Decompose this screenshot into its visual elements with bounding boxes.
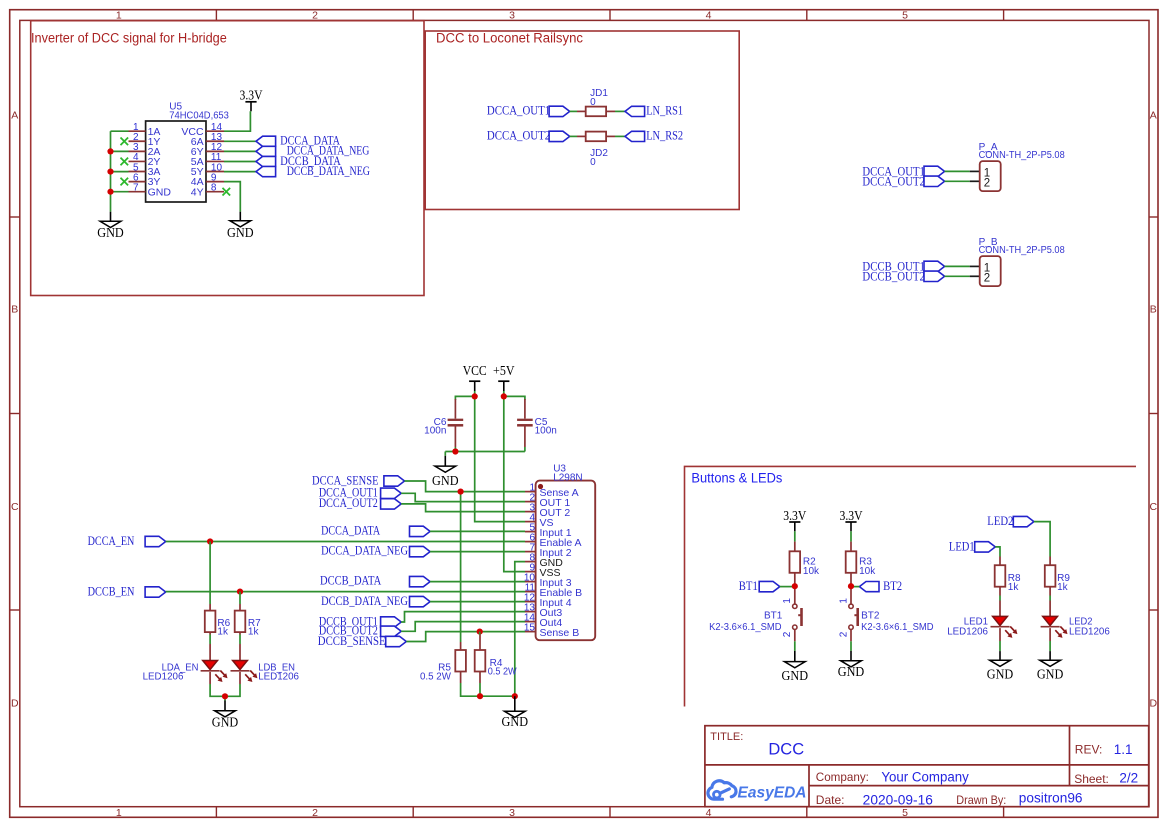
wire DCCA_DATA_NEG to pin7: [430, 551, 525, 553]
no-connect X pin 6: [121, 178, 129, 186]
node DCCA_OUT1: [487, 103, 570, 118]
svg-text:LN_RS1: LN_RS1: [646, 103, 683, 118]
svg-text:3.3V: 3.3V: [240, 88, 263, 103]
svg-text:2/2: 2/2: [1119, 771, 1138, 786]
node BT2: [859, 578, 902, 593]
resistor R9 1k: [1045, 557, 1071, 596]
svg-text:0: 0: [590, 97, 596, 108]
node DCCB_OUT2 (U3): [319, 623, 401, 638]
wire DCCA_DATA to pin5: [430, 530, 525, 532]
svg-text:DCCA_OUT1: DCCA_OUT1: [487, 103, 550, 118]
junction DCCA_EN / R6: [207, 538, 213, 544]
svg-text:K2-3.6×6.1_SMD: K2-3.6×6.1_SMD: [861, 622, 933, 633]
svg-text:EasyEDA: EasyEDA: [738, 785, 807, 802]
svg-text:DCCA_DATA: DCCA_DATA: [321, 523, 380, 538]
wire R6 branch: [209, 542, 211, 605]
svg-text:BT1: BT1: [739, 578, 758, 593]
wire pin9 4A to ground: [224, 182, 240, 212]
svg-text:DCCB_DATA_NEG: DCCB_DATA_NEG: [287, 163, 370, 178]
svg-text:A: A: [11, 110, 18, 122]
svg-text:DCCB_SENSE: DCCB_SENSE: [318, 633, 386, 648]
wire pin8 GND down: [515, 562, 525, 697]
svg-text:LED1206: LED1206: [1069, 627, 1110, 638]
svg-text:VCC: VCC: [463, 363, 487, 378]
svg-text:Buttons & LEDs: Buttons & LEDs: [691, 470, 782, 485]
node DCCB_OUT2: [862, 268, 944, 283]
resistor JD1 0: [577, 88, 615, 116]
junction VCC: [472, 393, 478, 399]
svg-text:8: 8: [211, 182, 217, 193]
svg-text:DCCB_EN: DCCB_EN: [88, 584, 135, 599]
svg-text:1: 1: [782, 598, 793, 604]
svg-text:Inverter of DCC signal for H-b: Inverter of DCC signal for H-bridge: [31, 31, 227, 46]
U3 pin stubs 1-15: [525, 492, 536, 632]
wire R7 to LDB_EN: [239, 635, 241, 645]
wire flag to resistor: [570, 135, 577, 137]
wire DCCB_SENSE to pin15: [406, 632, 525, 642]
junction SenseA / R5: [458, 489, 464, 495]
U5 pin numbers left: [133, 122, 139, 193]
svg-text:DCC: DCC: [768, 740, 804, 758]
wire to connector pin 2: [945, 275, 970, 277]
node DCCA_OUT1: [862, 163, 944, 178]
junction DCCB_EN / R7: [237, 589, 243, 595]
svg-text:C: C: [11, 501, 19, 513]
wire R5/R4 ground rail: [461, 683, 515, 696]
node DCCA_DATA: [256, 133, 340, 148]
ground BT1: [782, 651, 809, 683]
wire pin5 3A: [111, 171, 129, 173]
svg-text:A: A: [1150, 110, 1157, 122]
ground U5 right: [227, 212, 254, 241]
node DCCA_OUT2: [487, 128, 570, 143]
svg-text:DCCA_OUT2: DCCA_OUT2: [862, 173, 925, 188]
svg-text:DCCA_OUT2: DCCA_OUT2: [319, 495, 378, 510]
switch BT1 K2-3.6x6.1_SMD: [709, 598, 801, 638]
svg-text:5: 5: [902, 10, 908, 22]
svg-text:0.5 2W: 0.5 2W: [420, 671, 451, 682]
svg-text:C: C: [1150, 501, 1158, 513]
svg-text:74HC04D,653: 74HC04D,653: [169, 111, 229, 122]
LED LDA_EN LED1206: [143, 644, 228, 684]
junction C6 gnd: [452, 448, 458, 454]
svg-text:2: 2: [838, 631, 849, 637]
junction SenseB / R4: [477, 629, 483, 635]
wire LED2 to ground: [1049, 641, 1051, 651]
svg-text:DCCA_DATA_NEG: DCCA_DATA_NEG: [321, 543, 408, 558]
svg-text:DCC to Loconet Railsync: DCC to Loconet Railsync: [436, 30, 583, 45]
ground LED2: [1037, 651, 1064, 681]
svg-text:B: B: [1150, 304, 1157, 316]
node DCCB_DATA (U3): [320, 573, 430, 588]
wire pin7 GND: [111, 191, 129, 193]
switch bottom stub: [794, 629, 796, 641]
wire DCCB_EN to pin11 Enable B: [166, 591, 525, 593]
junction LED rail gnd: [222, 693, 228, 699]
svg-text:Date:: Date:: [816, 793, 845, 807]
wire pin10 5Y: [224, 171, 256, 173]
svg-text:1k: 1k: [1008, 582, 1020, 593]
U5 pin names: [148, 126, 204, 198]
svg-text:LED1: LED1: [949, 538, 975, 553]
svg-text:DCCA_EN: DCCA_EN: [88, 533, 135, 548]
ground U3 rail: [502, 696, 529, 729]
svg-text:GND: GND: [502, 714, 529, 729]
svg-text:3.3V: 3.3V: [783, 508, 806, 523]
svg-text:DCCA_OUT2: DCCA_OUT2: [487, 128, 550, 143]
svg-text:BT2: BT2: [861, 610, 880, 621]
wire R6 to LDA_EN: [209, 635, 211, 645]
svg-text:BT2: BT2: [883, 578, 902, 593]
svg-text:1k: 1k: [1057, 582, 1069, 593]
wire DCCA_OUT1 to pin2: [401, 493, 525, 501]
U5 left pins 1-7 stubs: [129, 131, 146, 191]
svg-text:7: 7: [133, 182, 139, 193]
node DCCA_DATA (U3): [321, 523, 430, 538]
wire VCC pin14 to 3.3V: [224, 111, 250, 131]
wire R9 to LED2: [1049, 596, 1051, 601]
node DCCA_SENSE: [312, 472, 405, 487]
svg-text:positron96: positron96: [1019, 791, 1083, 806]
U3 pin names: [540, 487, 583, 639]
LED LED1 LED1206: [947, 601, 1017, 642]
junction BT1: [792, 583, 798, 589]
node DCCB_DATA_NEG: [256, 163, 370, 178]
ground BT2: [838, 651, 865, 679]
svg-text:Drawn By:: Drawn By:: [956, 793, 1006, 807]
svg-text:GND: GND: [782, 668, 809, 683]
svg-text:4Y: 4Y: [191, 186, 204, 198]
svg-text:Sheet:: Sheet:: [1074, 772, 1109, 786]
svg-text:LED2: LED2: [987, 513, 1013, 528]
wire DCCB_DATA_NEG to pin12: [430, 601, 525, 603]
resistor R7 1k: [235, 604, 261, 637]
svg-text:GND: GND: [432, 473, 459, 488]
junction pin7: [107, 189, 113, 195]
svg-text:Company:: Company:: [816, 770, 869, 784]
svg-text:2020-09-16: 2020-09-16: [863, 792, 933, 807]
wire +5V vertical to pin9 VSS: [504, 391, 525, 572]
wire DCCB_OUT2 to pin14: [401, 622, 525, 632]
IC U5 74HC04D,653 inverter: [146, 102, 230, 202]
wire +5V to C5: [504, 396, 525, 400]
svg-text:2: 2: [984, 272, 990, 284]
svg-text:100n: 100n: [535, 426, 557, 437]
svg-text:GND: GND: [212, 715, 239, 730]
svg-text:10k: 10k: [859, 566, 876, 577]
no-connect X pin 8: [223, 188, 231, 196]
svg-text:D: D: [11, 698, 19, 710]
wire resistor to LN flag: [615, 110, 625, 112]
wire DCCB_OUT1 to pin13: [401, 612, 525, 622]
wire to connector pin 1: [945, 265, 970, 267]
svg-text:DCCB_DATA_NEG: DCCB_DATA_NEG: [321, 593, 408, 608]
resistor R3 10k: [846, 542, 877, 605]
IC U3 L298N: [536, 463, 596, 640]
power 3.3V U5: [240, 88, 263, 112]
svg-text:3: 3: [509, 807, 515, 819]
node LED2: [987, 513, 1034, 528]
wire pin3 2A: [111, 150, 129, 152]
junction pin5: [107, 169, 113, 175]
wire LED1 flag to R8: [995, 547, 1000, 557]
wire capacitor ground rail: [454, 447, 456, 452]
svg-text:1k: 1k: [248, 626, 260, 637]
wire resistor to LN flag: [615, 135, 625, 137]
svg-text:TITLE:: TITLE:: [710, 731, 743, 743]
wire LED ground rail: [210, 684, 240, 696]
LED LDB_EN LED1206: [231, 644, 300, 684]
power 3.3V BT1: [783, 508, 806, 531]
wire pin13 6A: [224, 140, 256, 142]
wire switch to ground: [794, 641, 796, 651]
svg-text:3.3V: 3.3V: [840, 508, 863, 523]
svg-text:2: 2: [312, 807, 318, 819]
U3 pin numbers: [524, 483, 536, 634]
svg-text:LED1206: LED1206: [947, 627, 988, 638]
svg-text:L298N: L298N: [553, 472, 582, 483]
wire VCC to C6: [455, 396, 474, 400]
svg-text:10k: 10k: [803, 566, 820, 577]
U5 right pins 14-8 stubs: [206, 131, 224, 191]
resistor R8 1k: [995, 557, 1021, 596]
wire junction to flag: [851, 586, 859, 588]
junction rail gnd stem: [512, 693, 518, 699]
wire to connector pin 2: [945, 180, 970, 182]
resistor R2 10k: [790, 542, 821, 605]
svg-text:1: 1: [116, 807, 122, 819]
wire SenseA to R5: [460, 492, 462, 642]
junction pin3: [107, 148, 113, 154]
svg-text:LED1206: LED1206: [258, 672, 299, 683]
node DCCB_OUT1 (U3): [319, 613, 401, 628]
wire DCCA_EN to pin6 Enable A: [166, 541, 525, 543]
svg-text:GND: GND: [148, 186, 172, 198]
node DCCA_OUT1 (U3): [319, 485, 401, 500]
node DCCA_DATA_NEG: [256, 143, 369, 158]
connector P_B CONN-TH_2P-P5.08: [970, 237, 1065, 286]
svg-text:LED1206: LED1206: [143, 672, 184, 683]
node DCCB_DATA: [256, 153, 341, 168]
connector P_A CONN-TH_2P-P5.08: [970, 142, 1065, 191]
capacitor C5 100n: [517, 399, 557, 447]
svg-text:BT1: BT1: [764, 610, 783, 621]
svg-text:15: 15: [524, 623, 536, 634]
svg-text:REV:: REV:: [1075, 743, 1103, 757]
wire LED1 to ground: [999, 641, 1001, 651]
svg-text:D: D: [1150, 698, 1158, 710]
wire flag to resistor: [570, 110, 577, 112]
node LED1: [949, 538, 995, 553]
no-connect X pin 2: [121, 137, 129, 145]
svg-text:Sense B: Sense B: [540, 627, 580, 639]
node DCCA_DATA_NEG (U3): [321, 543, 430, 558]
no-connect X pin 4: [121, 158, 129, 166]
svg-text:DCCB_DATA: DCCB_DATA: [320, 573, 382, 588]
svg-text:2: 2: [984, 177, 990, 189]
wire DCCA_OUT2 to pin3: [401, 504, 525, 512]
svg-text:Your Company: Your Company: [881, 769, 969, 784]
LED LED2 LED1206: [1041, 601, 1111, 642]
U5 pin numbers right: [211, 122, 223, 193]
resistor R4 0.5 2W: [475, 635, 518, 684]
resistor R5 0.5 2W: [420, 642, 466, 683]
node DCCA_OUT2 (U3): [319, 495, 401, 510]
power +5V: [493, 363, 515, 391]
svg-text:5: 5: [902, 807, 908, 819]
wire DCCA_SENSE to pin1: [405, 481, 526, 492]
resistor R6 1k: [205, 604, 231, 637]
ground LED1: [987, 651, 1014, 681]
capacitor C6 100n: [424, 399, 463, 447]
svg-text:GND: GND: [97, 225, 124, 240]
junction BT2: [848, 583, 854, 589]
svg-text:GND: GND: [1037, 666, 1064, 681]
svg-text:1.1: 1.1: [1114, 742, 1133, 757]
svg-text:0.5 2W: 0.5 2W: [488, 667, 518, 678]
svg-text:1: 1: [116, 10, 122, 22]
wire DCCB_DATA to pin10: [430, 581, 525, 583]
svg-text:3: 3: [509, 10, 515, 22]
junction R4 gnd: [477, 693, 483, 699]
svg-text:0: 0: [590, 157, 596, 168]
svg-text:LN_RS2: LN_RS2: [646, 128, 683, 143]
svg-text:GND: GND: [987, 666, 1014, 681]
node DCCA_OUT2: [862, 173, 944, 188]
svg-text:+5V: +5V: [493, 363, 515, 378]
node DCCA_EN: [88, 533, 166, 548]
ground LEDs: [212, 701, 239, 730]
switch bottom stub: [850, 629, 852, 641]
svg-text:CONN-TH_2P-P5.08: CONN-TH_2P-P5.08: [979, 245, 1066, 256]
wire flag to junction: [780, 586, 795, 588]
switch BT2 K2-3.6x6.1_SMD: [838, 598, 933, 638]
wire pin1 1A: [111, 130, 129, 132]
wire R8 to LED1: [999, 596, 1001, 601]
power VCC: [463, 363, 487, 391]
svg-text:GND: GND: [227, 225, 254, 240]
node DCCB_OUT1: [862, 258, 944, 273]
svg-text:100n: 100n: [424, 426, 446, 437]
svg-text:GND: GND: [838, 664, 865, 679]
wire R7 branch: [239, 592, 241, 604]
node BT1: [739, 578, 780, 593]
ground U5 left: [97, 212, 124, 241]
U3 pin1 marker dot: [538, 484, 543, 489]
node LN_RS1: [625, 103, 683, 118]
svg-text:4: 4: [706, 807, 712, 819]
svg-text:K2-3.6×6.1_SMD: K2-3.6×6.1_SMD: [709, 622, 781, 633]
wire 3.3V to resistor: [850, 531, 852, 541]
node LN_RS2: [625, 128, 683, 143]
wire pin11 5A: [224, 161, 256, 163]
svg-text:1: 1: [838, 598, 849, 604]
wire SenseB dot to R4: [479, 632, 481, 635]
wire switch to ground: [850, 641, 852, 651]
svg-text:1k: 1k: [217, 626, 229, 637]
power 3.3V BT2: [840, 508, 863, 531]
wire 3.3V to resistor: [794, 531, 796, 541]
junction +5V: [501, 393, 507, 399]
wire to connector pin 1: [945, 170, 970, 172]
svg-text:4: 4: [706, 10, 712, 22]
node DCCB_DATA_NEG (U3): [321, 593, 430, 608]
svg-text:DCCB_OUT2: DCCB_OUT2: [862, 268, 925, 283]
wire VCC vertical to pin4 VS: [475, 391, 525, 522]
resistor JD2 0: [577, 132, 615, 168]
wire pin12 6Y: [224, 150, 256, 152]
node DCCB_SENSE: [318, 633, 407, 648]
node DCCB_EN: [88, 584, 166, 599]
svg-text:B: B: [11, 304, 18, 316]
wire LED2 flag to R9: [1034, 522, 1050, 557]
svg-text:CONN-TH_2P-P5.08: CONN-TH_2P-P5.08: [979, 150, 1066, 161]
wire U5 input bus left vertical: [110, 131, 112, 212]
svg-text:2: 2: [782, 631, 793, 637]
ground C6/C5: [432, 456, 459, 488]
svg-text:2: 2: [312, 10, 318, 22]
